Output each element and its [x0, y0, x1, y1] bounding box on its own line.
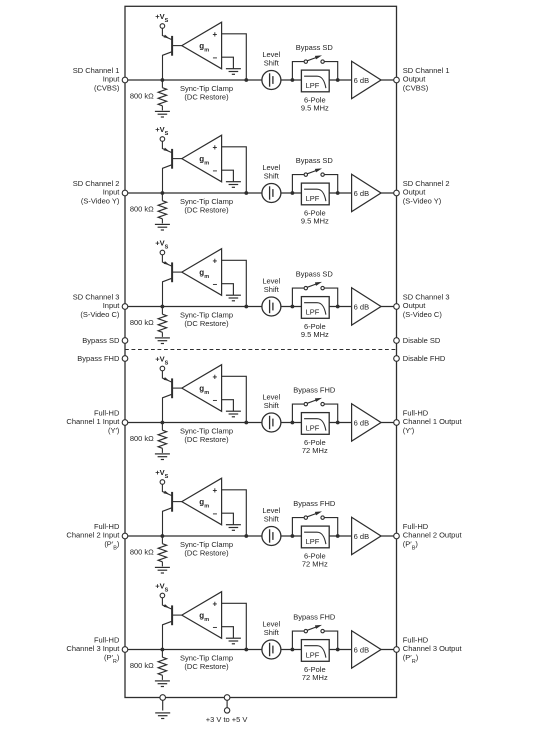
output terminal channel 2 [394, 190, 400, 196]
svg-text:72 MHz: 72 MHz [302, 559, 328, 568]
svg-text:−: − [212, 396, 217, 405]
svg-text:72 MHz: 72 MHz [302, 673, 328, 682]
node: LPF input junction channel 3 [291, 305, 295, 309]
wire: U4 − input to ground [222, 400, 234, 412]
svg-text:6 dB: 6 dB [354, 302, 369, 311]
svg-text:Full-HD: Full-HD [94, 635, 120, 644]
level shift source LS4 [262, 413, 281, 432]
amplifier A3 6 dB [352, 288, 381, 325]
label: channel 5 input pin [66, 522, 120, 552]
svg-text:SD Channel 3: SD Channel 3 [403, 292, 450, 301]
label: channel 2 input pin [73, 179, 121, 206]
wire: channel 2 signal line [125, 192, 397, 194]
svg-text:LPF: LPF [306, 424, 320, 433]
wire: U2 + input to signal line [222, 147, 247, 193]
wire: U4 + input to signal line [222, 376, 247, 422]
svg-text:(DC Restore): (DC Restore) [184, 319, 229, 328]
node: LPF output junction channel 3 [336, 305, 340, 309]
svg-text:Full-HD: Full-HD [403, 408, 429, 417]
label: Level Shift channel 4 [262, 393, 280, 410]
output terminal channel 5 [394, 533, 400, 539]
wire: bypass branch left channel 3 [292, 288, 304, 306]
label: Level Shift channel 6 [262, 620, 280, 637]
label: channel 3 input pin [73, 292, 121, 319]
wire: bypass branch right channel 4 [324, 404, 337, 422]
svg-text:(Y′): (Y′) [108, 426, 120, 435]
wire: U2 − input to ground [222, 170, 234, 182]
svg-text:72 MHz: 72 MHz [302, 446, 328, 455]
svg-text:Shift: Shift [264, 515, 280, 524]
svg-text:−: − [212, 53, 217, 62]
ground (R4) [155, 454, 170, 460]
node: LPF input junction channel 6 [291, 648, 295, 652]
transistor Q3 (sync-tip clamp PNP) [162, 255, 181, 307]
label: Level Shift channel 3 [262, 277, 280, 294]
amplifier A2 6 dB [352, 174, 381, 211]
node: LPF input junction channel 4 [291, 421, 295, 425]
svg-text:Input: Input [103, 75, 121, 84]
svg-text:Shift: Shift [264, 401, 280, 410]
level shift source LS3 [262, 297, 281, 316]
transistor Q6 (sync-tip clamp PNP) [162, 598, 181, 650]
ground (U3 − input reference) [226, 295, 241, 301]
label: 6-Pole 9.5 MHz LPF1 [301, 95, 329, 112]
svg-text:Shift: Shift [264, 59, 280, 68]
svg-text:Channel 2 Output: Channel 2 Output [403, 531, 463, 540]
svg-text:LPF: LPF [306, 537, 320, 546]
node: LPF output junction channel 6 [336, 648, 340, 652]
node: + input junction channel 1 [244, 78, 248, 82]
filter LPF6 low-pass [301, 640, 329, 662]
label: channel 4 input pin [66, 408, 120, 435]
node: + input junction channel 4 [244, 421, 248, 425]
Disable SD control terminal [394, 336, 441, 345]
op-amp U4 (gm transconductance amp) [182, 365, 222, 412]
input terminal channel 5 [122, 533, 128, 539]
filter LPF1 low-pass [301, 70, 329, 92]
+VS supply terminal channel 3 [155, 239, 168, 255]
wire: bypass branch right channel 5 [324, 518, 337, 536]
+VS supply terminal channel 2 [155, 125, 168, 141]
op-amp U1 (gm transconductance amp) [182, 22, 222, 69]
resistor R3 800 kΩ [158, 307, 167, 337]
svg-text:Output: Output [403, 75, 426, 84]
input terminal channel 2 [122, 190, 128, 196]
op-amp U5 (gm transconductance amp) [182, 478, 222, 525]
label: Level Shift channel 1 [262, 50, 280, 67]
level shift source LS5 [262, 527, 281, 546]
amplifier A6 6 dB [352, 631, 381, 668]
wire: bypass branch left channel 2 [292, 175, 304, 193]
svg-text:(CVBS): (CVBS) [403, 84, 429, 93]
label: channel 6 input pin [66, 635, 120, 665]
wire: dashed SD/FHD divider [125, 349, 397, 351]
svg-text:(DC Restore): (DC Restore) [184, 93, 229, 102]
output terminal channel 4 [394, 420, 400, 426]
wire: bypass branch left channel 4 [292, 404, 304, 422]
svg-text:(S-Video C): (S-Video C) [80, 310, 120, 319]
label: Level Shift channel 5 [262, 506, 280, 523]
wire: U3 − input to ground [222, 284, 234, 296]
ground (U5 − input reference) [226, 525, 241, 531]
output terminal channel 1 [394, 77, 400, 83]
ground (R5) [155, 567, 170, 573]
svg-text:(S-Video C): (S-Video C) [403, 310, 443, 319]
transistor Q4 (sync-tip clamp PNP) [162, 371, 181, 423]
svg-text:Shift: Shift [264, 285, 280, 294]
resistor R1 800 kΩ [158, 80, 167, 110]
node: LPF input junction channel 1 [291, 78, 295, 82]
svg-text:Channel 2 Input: Channel 2 Input [66, 531, 120, 540]
node: + input junction channel 3 [244, 305, 248, 309]
ground (U4 − input reference) [226, 411, 241, 417]
svg-text:−: − [212, 509, 217, 518]
svg-text:+3 V to +5 V: +3 V to +5 V [206, 715, 248, 724]
svg-text:SD Channel 2: SD Channel 2 [403, 179, 450, 188]
svg-text:800 kΩ: 800 kΩ [130, 205, 154, 214]
input terminal channel 1 [122, 77, 128, 83]
switch SW4 (Bypass FHD) [304, 398, 324, 406]
svg-text:6 dB: 6 dB [354, 532, 369, 541]
svg-text:9.5 MHz: 9.5 MHz [301, 216, 329, 225]
wire: bypass branch left channel 6 [292, 631, 304, 649]
wire: U5 − input to ground [222, 513, 234, 525]
svg-text:Full-HD: Full-HD [94, 522, 120, 531]
svg-text:LPF: LPF [306, 194, 320, 203]
label: 6-Pole 9.5 MHz LPF2 [301, 208, 329, 225]
+VS supply terminal channel 4 [155, 355, 168, 371]
label: Sync-Tip Clamp (DC Restore) channel 4 [180, 427, 233, 444]
amplifier A5 6 dB [352, 517, 381, 554]
svg-text:Full-HD: Full-HD [403, 635, 429, 644]
wire: U3 + input to signal line [222, 260, 247, 306]
wire: bypass branch left channel 1 [292, 62, 304, 80]
svg-text:+: + [212, 256, 217, 265]
svg-text:Bypass SD: Bypass SD [296, 43, 334, 52]
svg-text:Channel 1 Output: Channel 1 Output [403, 417, 463, 426]
ground (chip substrate) [155, 713, 170, 719]
filter LPF5 low-pass [301, 526, 329, 548]
Bypass SD control terminal [82, 336, 128, 345]
wire: U1 − input to ground [222, 57, 234, 68]
level shift source LS6 [262, 640, 281, 659]
Disable FHD control terminal [394, 354, 446, 363]
power supply pin +3 V to +5 V [206, 708, 248, 725]
wire: bypass branch right channel 3 [324, 288, 337, 306]
svg-text:800 kΩ: 800 kΩ [130, 661, 154, 670]
+VS supply terminal channel 5 [155, 468, 168, 484]
filter LPF2 low-pass [301, 183, 329, 205]
wire: channel 5 signal line [125, 535, 397, 537]
switch SW1 (Bypass SD) [304, 55, 324, 63]
label: 6-Pole 72 MHz LPF5 [302, 551, 328, 568]
svg-text:(CVBS): (CVBS) [94, 84, 120, 93]
transistor Q2 (sync-tip clamp PNP) [162, 141, 181, 193]
wire: power stem [226, 700, 228, 707]
label: channel 1 output pin [403, 66, 450, 93]
wire: U1 + input to signal line [222, 34, 247, 80]
svg-text:+: + [212, 599, 217, 608]
svg-text:(DC Restore): (DC Restore) [184, 662, 229, 671]
resistor R5 800 kΩ [158, 536, 167, 566]
svg-text:−: − [212, 166, 217, 175]
svg-text:800 kΩ: 800 kΩ [130, 318, 154, 327]
wire: bypass branch right channel 6 [324, 631, 337, 649]
ground (R2) [155, 224, 170, 230]
input terminal channel 4 [122, 420, 128, 426]
level shift source LS2 [262, 184, 281, 203]
switch SW6 (Bypass FHD) [304, 625, 324, 633]
wire: U6 − input to ground [222, 627, 234, 639]
node: LPF input junction channel 2 [291, 191, 295, 195]
svg-text:Bypass SD: Bypass SD [296, 156, 334, 165]
svg-text:Bypass FHD: Bypass FHD [293, 612, 336, 621]
svg-text:Disable SD: Disable SD [403, 336, 441, 345]
+VS supply terminal channel 1 [155, 12, 168, 28]
node: + input junction channel 2 [244, 191, 248, 195]
svg-text:−: − [212, 280, 217, 289]
ground terminal on bottom edge [160, 695, 166, 701]
svg-text:(Y′): (Y′) [403, 426, 415, 435]
node: LPF output junction channel 1 [336, 78, 340, 82]
svg-text:Shift: Shift [264, 172, 280, 181]
svg-text:Channel 3 Input: Channel 3 Input [66, 644, 120, 653]
svg-text:Bypass FHD: Bypass FHD [77, 354, 120, 363]
svg-text:LPF: LPF [306, 651, 320, 660]
node: clamp node channel 2 [161, 191, 165, 195]
wire: bypass branch left channel 5 [292, 518, 304, 536]
svg-text:Input: Input [103, 188, 121, 197]
svg-text:Input: Input [103, 301, 121, 310]
output terminal channel 3 [394, 304, 400, 310]
ground (R6) [155, 681, 170, 687]
amplifier A1 6 dB [352, 61, 381, 98]
Bypass FHD control terminal [77, 354, 127, 363]
wire: U5 + input to signal line [222, 490, 247, 536]
node: clamp node channel 5 [161, 534, 165, 538]
wire: channel 1 signal line [125, 79, 397, 81]
svg-text:SD Channel 2: SD Channel 2 [73, 179, 120, 188]
label: 6-Pole 9.5 MHz LPF3 [301, 322, 329, 339]
svg-text:Bypass SD: Bypass SD [296, 269, 334, 278]
label: Sync-Tip Clamp (DC Restore) channel 1 [180, 84, 233, 101]
ground (R3) [155, 338, 170, 344]
node: clamp node channel 1 [161, 78, 165, 82]
svg-text:Disable FHD: Disable FHD [403, 354, 446, 363]
input terminal channel 3 [122, 304, 128, 310]
resistor R2 800 kΩ [158, 193, 167, 223]
output terminal channel 6 [394, 647, 400, 653]
label: 6-Pole 72 MHz LPF6 [302, 665, 328, 682]
input terminal channel 6 [122, 647, 128, 653]
label: channel 3 output pin [403, 292, 450, 319]
wire: bypass branch right channel 1 [324, 62, 337, 80]
svg-text:800 kΩ: 800 kΩ [130, 434, 154, 443]
svg-text:Full-HD: Full-HD [403, 522, 429, 531]
label: Sync-Tip Clamp (DC Restore) channel 3 [180, 311, 233, 328]
svg-text:Bypass FHD: Bypass FHD [293, 499, 336, 508]
svg-text:(DC Restore): (DC Restore) [184, 206, 229, 215]
node: clamp node channel 6 [161, 648, 165, 652]
svg-text:9.5 MHz: 9.5 MHz [301, 330, 329, 339]
ground (U6 − input reference) [226, 638, 241, 644]
svg-text:800 kΩ: 800 kΩ [130, 548, 154, 557]
switch SW5 (Bypass FHD) [304, 511, 324, 519]
svg-text:Channel 3 Output: Channel 3 Output [403, 644, 463, 653]
node: LPF output junction channel 5 [336, 534, 340, 538]
svg-text:(DC Restore): (DC Restore) [184, 549, 229, 558]
node: clamp node channel 4 [161, 421, 165, 425]
svg-text:(S-Video Y): (S-Video Y) [81, 197, 120, 206]
transistor Q5 (sync-tip clamp PNP) [162, 484, 181, 536]
node: LPF output junction channel 4 [336, 421, 340, 425]
label: Sync-Tip Clamp (DC Restore) channel 6 [180, 654, 233, 671]
svg-text:SD Channel 3: SD Channel 3 [73, 292, 120, 301]
label: channel 4 output pin [403, 408, 463, 435]
label: channel 5 output pin [403, 522, 463, 552]
node: clamp node channel 3 [161, 305, 165, 309]
node: LPF output junction channel 2 [336, 191, 340, 195]
svg-text:(S-Video Y): (S-Video Y) [403, 197, 442, 206]
op-amp U6 (gm transconductance amp) [182, 592, 222, 639]
amplifier A4 6 dB [352, 404, 381, 441]
level shift source LS1 [262, 71, 281, 90]
+VS supply terminal channel 6 [155, 582, 168, 598]
svg-text:800 kΩ: 800 kΩ [130, 92, 154, 101]
ground (U2 − input reference) [226, 182, 241, 188]
svg-text:+: + [212, 30, 217, 39]
wire: bypass branch right channel 2 [324, 175, 337, 193]
label: channel 1 input pin [73, 66, 121, 93]
svg-text:Output: Output [403, 301, 426, 310]
label: 6-Pole 72 MHz LPF4 [302, 438, 328, 455]
label: Sync-Tip Clamp (DC Restore) channel 5 [180, 540, 233, 557]
svg-text:Channel 1 Input: Channel 1 Input [66, 417, 120, 426]
label: Sync-Tip Clamp (DC Restore) channel 2 [180, 197, 233, 214]
svg-text:Full-HD: Full-HD [94, 408, 120, 417]
svg-text:Output: Output [403, 188, 426, 197]
ground (R1) [155, 111, 170, 117]
svg-text:+: + [212, 143, 217, 152]
svg-text:Bypass SD: Bypass SD [82, 336, 120, 345]
node: + input junction channel 6 [244, 648, 248, 652]
switch SW2 (Bypass SD) [304, 168, 324, 176]
svg-text:Bypass FHD: Bypass FHD [293, 385, 336, 394]
svg-text:6 dB: 6 dB [354, 645, 369, 654]
node: + input junction channel 5 [244, 534, 248, 538]
svg-text:6 dB: 6 dB [354, 76, 369, 85]
op-amp U3 (gm transconductance amp) [182, 249, 222, 296]
svg-text:+: + [212, 486, 217, 495]
wire: channel 6 signal line [125, 649, 397, 651]
svg-text:6 dB: 6 dB [354, 189, 369, 198]
switch SW3 (Bypass SD) [304, 282, 324, 290]
svg-text:Shift: Shift [264, 628, 280, 637]
label: Level Shift channel 2 [262, 163, 280, 180]
label: channel 6 output pin [403, 635, 463, 665]
svg-text:SD Channel 1: SD Channel 1 [403, 66, 450, 75]
svg-text:LPF: LPF [306, 81, 320, 90]
transistor Q1 (sync-tip clamp PNP) [162, 28, 181, 80]
filter LPF3 low-pass [301, 297, 329, 319]
filter LPF4 low-pass [301, 413, 329, 435]
svg-text:9.5 MHz: 9.5 MHz [301, 103, 329, 112]
outer block boundary box [125, 6, 397, 697]
svg-text:LPF: LPF [306, 308, 320, 317]
svg-text:6 dB: 6 dB [354, 418, 369, 427]
wire: U6 + input to signal line [222, 603, 247, 649]
resistor R4 800 kΩ [158, 423, 167, 453]
wire: ground stem [162, 700, 164, 710]
wire: channel 4 signal line [125, 422, 397, 424]
node: LPF input junction channel 5 [291, 534, 295, 538]
ground (U1 − input reference) [226, 69, 241, 75]
svg-text:−: − [212, 623, 217, 632]
label: channel 2 output pin [403, 179, 450, 206]
svg-text:(DC Restore): (DC Restore) [184, 435, 229, 444]
resistor R6 800 kΩ [158, 650, 167, 680]
power terminal on bottom edge [224, 695, 230, 701]
op-amp U2 (gm transconductance amp) [182, 135, 222, 182]
svg-text:SD Channel 1: SD Channel 1 [73, 66, 120, 75]
wire: channel 3 signal line [125, 306, 397, 308]
svg-text:+: + [212, 372, 217, 381]
